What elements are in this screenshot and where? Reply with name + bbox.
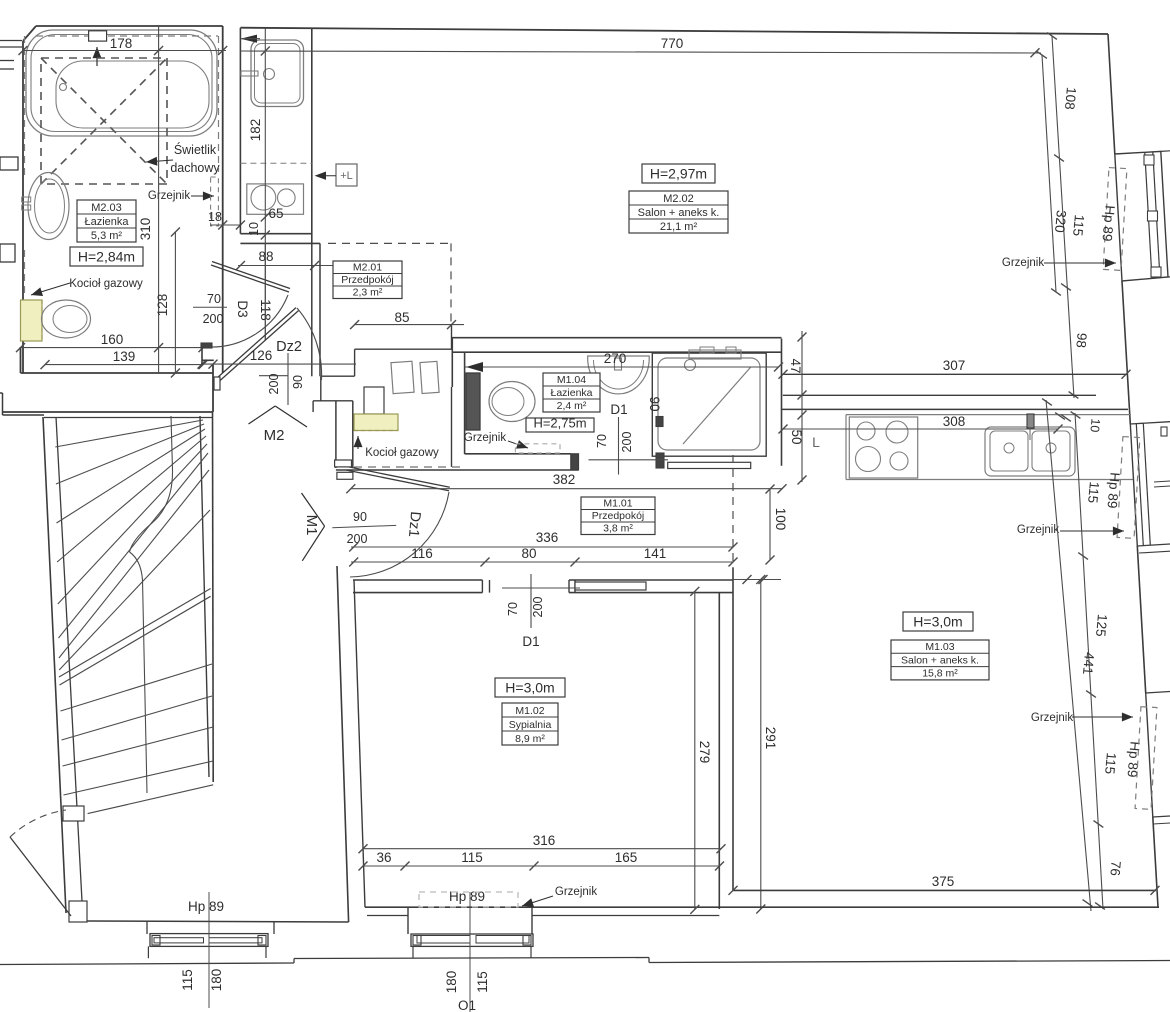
window W1 mullion boxes	[1144, 155, 1154, 165]
bathtub tap arrow	[96, 47, 98, 66]
wall: bedroom right	[718, 593, 720, 909]
svg-text:Kocioł gazowy: Kocioł gazowy	[365, 447, 439, 459]
radiator dashed bedroom	[419, 892, 518, 907]
window W2 top edge	[1130, 422, 1170, 424]
dim line 320	[1042, 55, 1056, 292]
wall: kitchenette right	[311, 28, 313, 244]
svg-text:180: 180	[444, 971, 459, 994]
dim 375 line	[729, 886, 738, 895]
svg-text:M2: M2	[264, 427, 285, 444]
table M1.01	[581, 497, 655, 535]
wall: stair left outer	[43, 417, 66, 913]
kitchen sink unit	[985, 427, 1075, 476]
svg-text:182: 182	[248, 119, 263, 142]
box H=2,97m	[642, 164, 715, 183]
dashed inner boundary bathroom left lower	[24, 250, 26, 296]
wall: M1.02/M1.03 boundary	[732, 568, 734, 890]
svg-text:10: 10	[247, 222, 261, 236]
dim 160 line	[21, 347, 204, 349]
boiler stand M1	[364, 387, 384, 414]
shower tray outer	[652, 353, 766, 456]
svg-text:Salon + aneks k.: Salon + aneks k.	[638, 207, 720, 219]
toilet M1.04 cistern	[466, 373, 480, 430]
svg-text:178: 178	[110, 36, 133, 51]
stair bottom edge	[88, 785, 214, 814]
dim chain lower outer	[1075, 413, 1103, 909]
toilet M1.04 bowl	[489, 382, 535, 422]
svg-text:90: 90	[647, 396, 662, 411]
bathtub tap deck	[89, 31, 107, 41]
wall: bathroom SE jamb step	[201, 348, 203, 365]
wall: bedroom left inner	[354, 580, 365, 907]
wall: M1.04 bottom outer	[336, 469, 579, 471]
svg-text:160: 160	[101, 332, 124, 347]
dim 100 line	[769, 489, 771, 560]
svg-text:90: 90	[353, 510, 367, 524]
svg-text:76: 76	[1107, 860, 1123, 876]
svg-text:80: 80	[521, 546, 536, 561]
table M1.03	[891, 640, 989, 680]
svg-text:770: 770	[661, 36, 684, 51]
washbasin M2.03	[28, 173, 69, 240]
kitchenette faucet knob	[264, 69, 275, 80]
wall: M1.04 left jamb	[451, 338, 453, 387]
svg-text:Grzejnik: Grzejnik	[1031, 712, 1073, 724]
door Dz1 arc	[350, 492, 449, 577]
kitchenette burner small	[278, 189, 296, 207]
box H=3,0m bedroom	[495, 678, 565, 697]
radiator dashed M2.03	[211, 177, 219, 226]
stair exit door arc dashed	[10, 810, 66, 837]
svg-text:M1.01: M1.01	[603, 497, 632, 509]
wall: kitchenette left	[239, 28, 241, 234]
box H=3,0m M1.03	[903, 612, 973, 631]
marker M1 chevron	[302, 493, 325, 526]
wall: M1.03 bottom inner	[733, 889, 1156, 891]
dim chain 36/115/165	[363, 865, 720, 867]
svg-text:Świetlik: Świetlik	[174, 142, 217, 157]
wall: stair left inner	[56, 417, 82, 901]
vent +L leader	[318, 175, 336, 177]
dashed boundary M1.01/M1.03	[732, 455, 734, 568]
washbasin M1.04 tap	[615, 358, 622, 370]
shower mixer	[689, 350, 741, 359]
dim 126 line	[201, 363, 356, 365]
svg-text:D1: D1	[610, 402, 627, 417]
door jamb D1 block	[571, 454, 579, 470]
window W1 glazing	[1145, 153, 1152, 279]
wall: shower right partition	[781, 339, 783, 466]
dim 316 line	[363, 848, 721, 850]
window stair glazing	[154, 938, 204, 943]
svg-text:115: 115	[1085, 481, 1102, 504]
wardrobe shelf 1	[391, 361, 414, 393]
svg-text:85: 85	[394, 310, 409, 325]
wall: bathroom bottom-left step	[20, 347, 22, 373]
building edge bottom strip	[0, 963, 294, 965]
arrow Grzejnik W3	[1072, 716, 1133, 718]
svg-text:279: 279	[697, 741, 712, 764]
svg-text:18: 18	[208, 210, 222, 224]
window W1 sill lines	[1161, 150, 1170, 153]
svg-text:70: 70	[207, 292, 221, 306]
arrow Kociol gazowy M1	[357, 436, 359, 449]
arrow Grzejnik bedroom	[522, 896, 553, 906]
kitchenette sink inner	[255, 44, 301, 104]
svg-text:Grzejnik: Grzejnik	[464, 432, 506, 444]
svg-text:65: 65	[268, 206, 283, 221]
svg-text:115: 115	[180, 969, 195, 991]
door D1 leaf pocket	[575, 582, 646, 590]
shower corner block	[656, 453, 664, 468]
window W2 inner edge	[1130, 424, 1137, 546]
svg-text:M1.04: M1.04	[557, 374, 586, 386]
arrow Grzejnik W1	[1044, 262, 1116, 264]
wall: M2.01 left band	[311, 243, 313, 376]
svg-text:200: 200	[620, 432, 634, 453]
dim 178 line	[22, 50, 226, 52]
dim 308 line	[783, 428, 1058, 430]
svg-text:88: 88	[258, 249, 273, 264]
wall: lobby step walls	[321, 375, 355, 377]
wall: bedroom bottom outer L	[367, 915, 408, 917]
wall: bedroom bottom outer R	[532, 915, 719, 917]
svg-text:165: 165	[615, 850, 638, 865]
svg-text:200: 200	[203, 312, 224, 326]
dim 85 line	[355, 324, 464, 326]
kitchen burner 3	[856, 447, 881, 472]
stair treads upper fan	[55, 420, 203, 447]
window W2 radiator dashed	[1117, 437, 1140, 539]
window bedroom end caps	[413, 936, 421, 946]
door Dz1 jambs	[335, 460, 352, 467]
dim kitchenette centerline	[264, 28, 266, 340]
svg-text:Łazienka: Łazienka	[550, 387, 592, 399]
svg-text:139: 139	[113, 349, 136, 364]
door D1 cross upper	[618, 417, 620, 475]
door D3 leaf	[211, 265, 289, 292]
svg-text:O1: O1	[458, 998, 476, 1012]
dim 10 kitchen corner	[1055, 413, 1065, 420]
svg-text:21,1 m²: 21,1 m²	[660, 221, 698, 233]
svg-text:375: 375	[932, 874, 955, 889]
gas boiler dashed edge	[41, 300, 43, 341]
svg-text:270: 270	[604, 351, 627, 366]
shower tray inner	[658, 358, 760, 450]
wall: nook left band	[335, 401, 337, 468]
wall: bathroom M2.03 top-left corner cut	[23, 26, 36, 41]
dim 128 line	[174, 232, 176, 373]
kitchen burner 2	[886, 421, 908, 443]
dim 18 line	[210, 224, 240, 226]
jamb block bathroom SE	[201, 343, 212, 348]
svg-text:Sypialnia: Sypialnia	[509, 719, 552, 731]
wall: M1.04 bottom inner	[465, 453, 571, 455]
door Dz2 leaf	[217, 308, 296, 378]
wall: M2.02 top	[240, 28, 1108, 34]
toilet M2.03 bowl	[42, 300, 91, 338]
wall: M2.02/M1 band line A	[783, 373, 1127, 375]
svg-text:115: 115	[475, 971, 490, 993]
toilet M1.04 seat	[492, 388, 524, 416]
wall: M1.03 bottom outer	[733, 906, 1159, 908]
gas boiler M1 dashes	[354, 430, 398, 432]
svg-text:115: 115	[1102, 752, 1119, 775]
svg-text:336: 336	[536, 530, 559, 545]
corridor bottom wall	[87, 921, 349, 922]
dashed boundary M1.01 top	[354, 466, 464, 468]
window W3 bottom edge	[1153, 816, 1170, 817]
svg-text:98: 98	[1073, 332, 1089, 348]
svg-text:115: 115	[461, 850, 483, 865]
svg-text:L: L	[812, 434, 820, 450]
dim 770 line	[240, 51, 1041, 53]
neighbour wall stub 1	[0, 40, 22, 42]
door D1 cross lower	[502, 587, 580, 589]
dim 279 line	[694, 591, 696, 909]
stair treads lower fan	[61, 664, 213, 711]
kitchenette sink	[251, 40, 304, 107]
svg-text:310: 310	[138, 218, 153, 241]
wall: M1.04 left	[464, 352, 466, 454]
dim 291 top terminator	[733, 579, 781, 581]
kitchen sink basin hole R	[1046, 443, 1056, 453]
skylight diagonal 2	[41, 58, 167, 184]
shower diagonal	[683, 367, 751, 444]
door Dz1 leaf	[346, 470, 449, 491]
table M2.02	[629, 191, 728, 233]
kitchen sink basin L	[990, 431, 1028, 471]
door Dz2 arc	[297, 308, 322, 380]
window W2 sill lines	[1154, 481, 1170, 482]
svg-text:180: 180	[209, 969, 224, 992]
kitchenette faucet bar	[241, 71, 258, 76]
window bedroom glazing	[417, 936, 470, 944]
dashed boundary M2.01 top	[328, 242, 451, 244]
wall: left outer step horizontal	[0, 392, 3, 394]
wall: kitchenette bottom inner	[240, 233, 311, 235]
bathtub outer	[26, 30, 217, 136]
wall: stair top ledge	[3, 414, 45, 416]
wardrobe shelf 2	[420, 361, 439, 393]
svg-text:M1.03: M1.03	[925, 641, 954, 653]
neighbour wall stub 2	[0, 60, 14, 62]
window W1 frame	[1115, 151, 1168, 281]
svg-text:M2.02: M2.02	[663, 193, 694, 205]
door D1 jamb right	[568, 580, 570, 593]
svg-text:Kocioł gazowy: Kocioł gazowy	[69, 278, 143, 290]
window W2 glazing	[1136, 424, 1143, 546]
table M1.02	[502, 703, 558, 745]
svg-text:5,3 m²: 5,3 m²	[91, 230, 123, 242]
door Dz2 jamb	[214, 377, 220, 390]
dashed inner boundary bathroom top	[36, 35, 218, 37]
wall: left outer step vertical	[2, 393, 4, 415]
svg-text:H=2,97m: H=2,97m	[650, 166, 707, 182]
svg-text:2,3 m²: 2,3 m²	[353, 286, 383, 298]
window W3 radiator dashed	[1135, 707, 1157, 810]
wall: bedroom bottom	[365, 906, 733, 908]
radiator dashed M1.04	[515, 444, 560, 453]
svg-text:+L: +L	[340, 170, 353, 182]
svg-text:108: 108	[1062, 87, 1079, 111]
svg-text:H=2,84m: H=2,84m	[78, 249, 135, 265]
window bedroom frame	[411, 934, 533, 946]
kitchen stove	[849, 417, 917, 478]
svg-text:Hp 89: Hp 89	[449, 889, 485, 904]
washbasin taps	[22, 197, 31, 202]
svg-text:200: 200	[267, 374, 281, 395]
stair winder edge double	[59, 589, 211, 678]
neighbour wall stub 3	[0, 157, 18, 170]
dashed inner boundary bathroom right	[218, 36, 220, 172]
shower door sill	[668, 462, 751, 468]
dim 310 line	[158, 26, 160, 373]
skylight diagonal 1	[41, 58, 167, 184]
svg-text:M1: M1	[303, 515, 320, 536]
wall: stair right band	[200, 416, 209, 777]
wall: kitchen top	[782, 408, 1129, 410]
neighbour wall stub 4	[0, 244, 15, 262]
svg-text:2,4 m²: 2,4 m²	[557, 400, 587, 412]
svg-text:Grzejnik: Grzejnik	[555, 886, 597, 898]
table M1.04	[543, 373, 600, 412]
window bedroom sill stubs	[412, 946, 414, 957]
svg-text:M1.02: M1.02	[515, 705, 544, 717]
washbasin inner	[35, 179, 65, 233]
svg-text:Dz1: Dz1	[405, 511, 423, 538]
svg-text:D1: D1	[522, 634, 539, 649]
svg-text:115: 115	[1070, 214, 1087, 237]
wall: right exterior slanted	[1108, 34, 1115, 154]
svg-text:70: 70	[506, 602, 520, 616]
svg-text:47: 47	[788, 358, 803, 373]
svg-text:H=2,75m: H=2,75m	[533, 416, 586, 431]
dim 47/50 line	[801, 331, 803, 482]
kitchen faucet	[1027, 414, 1034, 428]
toilet M2.03 seat	[53, 306, 87, 333]
arrow to skylight	[146, 160, 173, 162]
box H=2,84m	[70, 247, 143, 266]
wall: bathroom bottom band inner	[21, 372, 214, 374]
svg-text:Hp 89: Hp 89	[188, 899, 224, 914]
window stair end caps	[152, 936, 160, 946]
svg-text:H=3,0m: H=3,0m	[913, 614, 962, 630]
window stair centerline	[208, 892, 210, 1008]
dim 118 line	[264, 243, 266, 340]
kitchen sink basin hole L	[1004, 443, 1014, 453]
kitchen counter outline	[846, 414, 1131, 416]
bathtub drain	[60, 84, 67, 91]
svg-text:Hp 89: Hp 89	[1104, 472, 1122, 509]
window W2 frame box	[1161, 427, 1167, 436]
wall: bathroom M2.03 top	[36, 25, 223, 27]
wall: bathroom M2.03 left	[22, 41, 24, 373]
svg-text:D3: D3	[235, 300, 250, 317]
svg-text:90: 90	[291, 375, 305, 389]
window W3 inner edge	[1146, 693, 1153, 817]
stair landing rail	[130, 416, 173, 552]
kitchenette counter dashed edge	[240, 162, 311, 164]
wall: bathroom bottom band outer	[3, 411, 214, 413]
window stair frame	[150, 934, 268, 947]
dim chain lower inner	[1046, 400, 1091, 911]
svg-text:Grzejnik: Grzejnik	[148, 190, 190, 202]
svg-text:Łazienka: Łazienka	[84, 216, 129, 228]
wall: M1.04 top inner	[452, 351, 781, 353]
wall: bedroom top inner	[353, 592, 482, 594]
table M2.03	[77, 200, 136, 242]
svg-text:291: 291	[763, 727, 778, 750]
svg-text:316: 316	[533, 833, 556, 848]
door Dz2 size	[287, 353, 289, 405]
washbasin M1.04	[588, 356, 650, 394]
kitchen burner 1	[857, 422, 875, 440]
bay stair side walls	[146, 921, 148, 934]
window W1 radiator dashed	[1103, 168, 1127, 271]
arrow Kociol gazowy M2.03	[31, 283, 70, 295]
kitchen burner 4	[890, 452, 908, 470]
svg-text:Dz2: Dz2	[276, 339, 302, 355]
kitchenette stove	[247, 184, 304, 214]
svg-text:382: 382	[553, 472, 576, 487]
arrow Grzejnik M2.03	[191, 195, 214, 197]
svg-text:308: 308	[943, 414, 966, 429]
kitchenette burner big	[251, 185, 276, 210]
arrow Grzejnik M1.04	[508, 441, 528, 448]
svg-text:200: 200	[531, 597, 545, 618]
svg-text:50: 50	[789, 429, 804, 444]
svg-text:116: 116	[411, 546, 433, 561]
shower head	[685, 360, 696, 371]
vent +L box	[336, 164, 357, 186]
skylight dashed square	[41, 58, 167, 184]
dashed inner boundary bathroom left	[24, 36, 26, 180]
dim 88 line	[238, 265, 356, 267]
svg-text:Hp 89: Hp 89	[1124, 741, 1142, 778]
wall: bathroom M2.03 right	[222, 26, 224, 373]
svg-text:Grzejnik: Grzejnik	[1017, 524, 1059, 536]
stair exit door leaf	[10, 837, 71, 916]
dim chain upper (108/115/98)	[1052, 36, 1074, 398]
svg-text:Przedpokój: Przedpokój	[341, 274, 394, 286]
bay bedroom side walls	[407, 907, 409, 934]
svg-text:3,8 m²: 3,8 m²	[603, 522, 633, 534]
svg-text:128: 128	[155, 294, 170, 317]
window stair sill stubs	[147, 946, 149, 958]
svg-text:320: 320	[1052, 210, 1069, 234]
svg-text:Salon + aneks k.: Salon + aneks k.	[901, 654, 979, 666]
stair landing block	[63, 806, 84, 821]
svg-text:dachowy: dachowy	[170, 161, 220, 175]
svg-text:15,8 m²: 15,8 m²	[922, 668, 958, 680]
bathtub rim	[31, 35, 212, 132]
kitchen sink basin R	[1032, 431, 1070, 471]
window W2 bottom edge	[1137, 544, 1170, 546]
wall: bedroom left outer	[337, 566, 349, 922]
window bedroom centerline	[469, 892, 471, 1012]
svg-text:M2.03: M2.03	[91, 202, 122, 214]
washbasin M1.04 inner	[594, 360, 644, 389]
stair walking line lower	[130, 552, 148, 793]
svg-text:125: 125	[1093, 614, 1110, 638]
bathtub basin	[56, 61, 209, 128]
svg-text:36: 36	[376, 850, 391, 865]
dim 270 line	[465, 366, 779, 368]
gas boiler M2.03 (yellow)	[21, 300, 43, 341]
svg-text:10: 10	[1087, 418, 1102, 433]
door D1 jamb left	[481, 580, 483, 593]
